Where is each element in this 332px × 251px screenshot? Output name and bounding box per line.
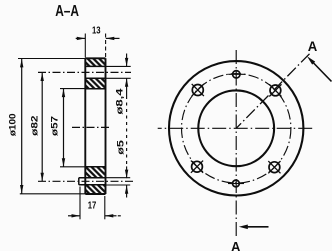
dimension line o8.4 / o5 (right of section)	[126, 54, 128, 198]
svg-text:ø57: ø57	[50, 116, 61, 136]
dimension o82	[41, 73, 43, 182]
dimension 17 (bottom)	[68, 187, 121, 220]
svg-text:13: 13	[92, 26, 101, 37]
hatch band bottom outer	[86, 186, 105, 194]
flange plate outline (section)	[85, 58, 105, 194]
bolt hole bottom o5	[228, 180, 244, 187]
svg-text:A: A	[231, 239, 241, 251]
extension line o57 bottom	[60, 166, 85, 168]
bolt hole top o5	[228, 71, 245, 78]
extension line o100 top	[18, 58, 85, 60]
svg-text:17: 17	[88, 201, 97, 212]
bolt circle o82 (dash-dot)	[182, 74, 291, 183]
section arrow top-right	[307, 56, 332, 81]
front view bore circle o57	[198, 90, 274, 166]
dimension o57	[63, 89, 65, 167]
bolt hole lower-right o8.4	[268, 161, 280, 173]
dimension 13 (top)	[76, 34, 120, 58]
extension line o100 bottom	[20, 193, 86, 195]
svg-text:ø8,4: ø8,4	[115, 88, 126, 115]
boss with o5 hole (section)	[79, 178, 130, 185]
bolt hole upper-left o8.4	[192, 84, 204, 96]
extension line o57 top	[60, 88, 85, 90]
front view outer circle o100	[169, 61, 303, 195]
svg-text:ø100: ø100	[8, 113, 19, 136]
svg-text:ø82: ø82	[29, 116, 40, 136]
section arrow bottom	[239, 225, 269, 230]
hatch band top outer (above bolt hole)	[85, 59, 105, 66]
svg-text:A–A: A–A	[55, 3, 79, 20]
boss axis center line (section, also o82 bottom extension)	[38, 180, 135, 182]
hatch band below bore	[79, 167, 106, 178]
dimension o100	[21, 59, 23, 194]
section cutting plane diagonal	[236, 54, 309, 129]
bolt hole upper-right o8.4	[269, 84, 281, 96]
svg-text:A: A	[308, 38, 318, 54]
hatch band between bolt hole and bore	[85, 79, 105, 89]
vertical center line (front view)	[235, 50, 237, 239]
bolt hole lower-left o8.4	[191, 161, 203, 173]
bolt hole channel o8.4 (section)	[85, 66, 130, 78]
bolt hole axis center line (section, also o82 top extension)	[38, 71, 131, 73]
flange axis center line (section)	[72, 126, 110, 128]
svg-text:ø5: ø5	[115, 139, 126, 154]
horizontal center line (front view)	[158, 127, 314, 129]
